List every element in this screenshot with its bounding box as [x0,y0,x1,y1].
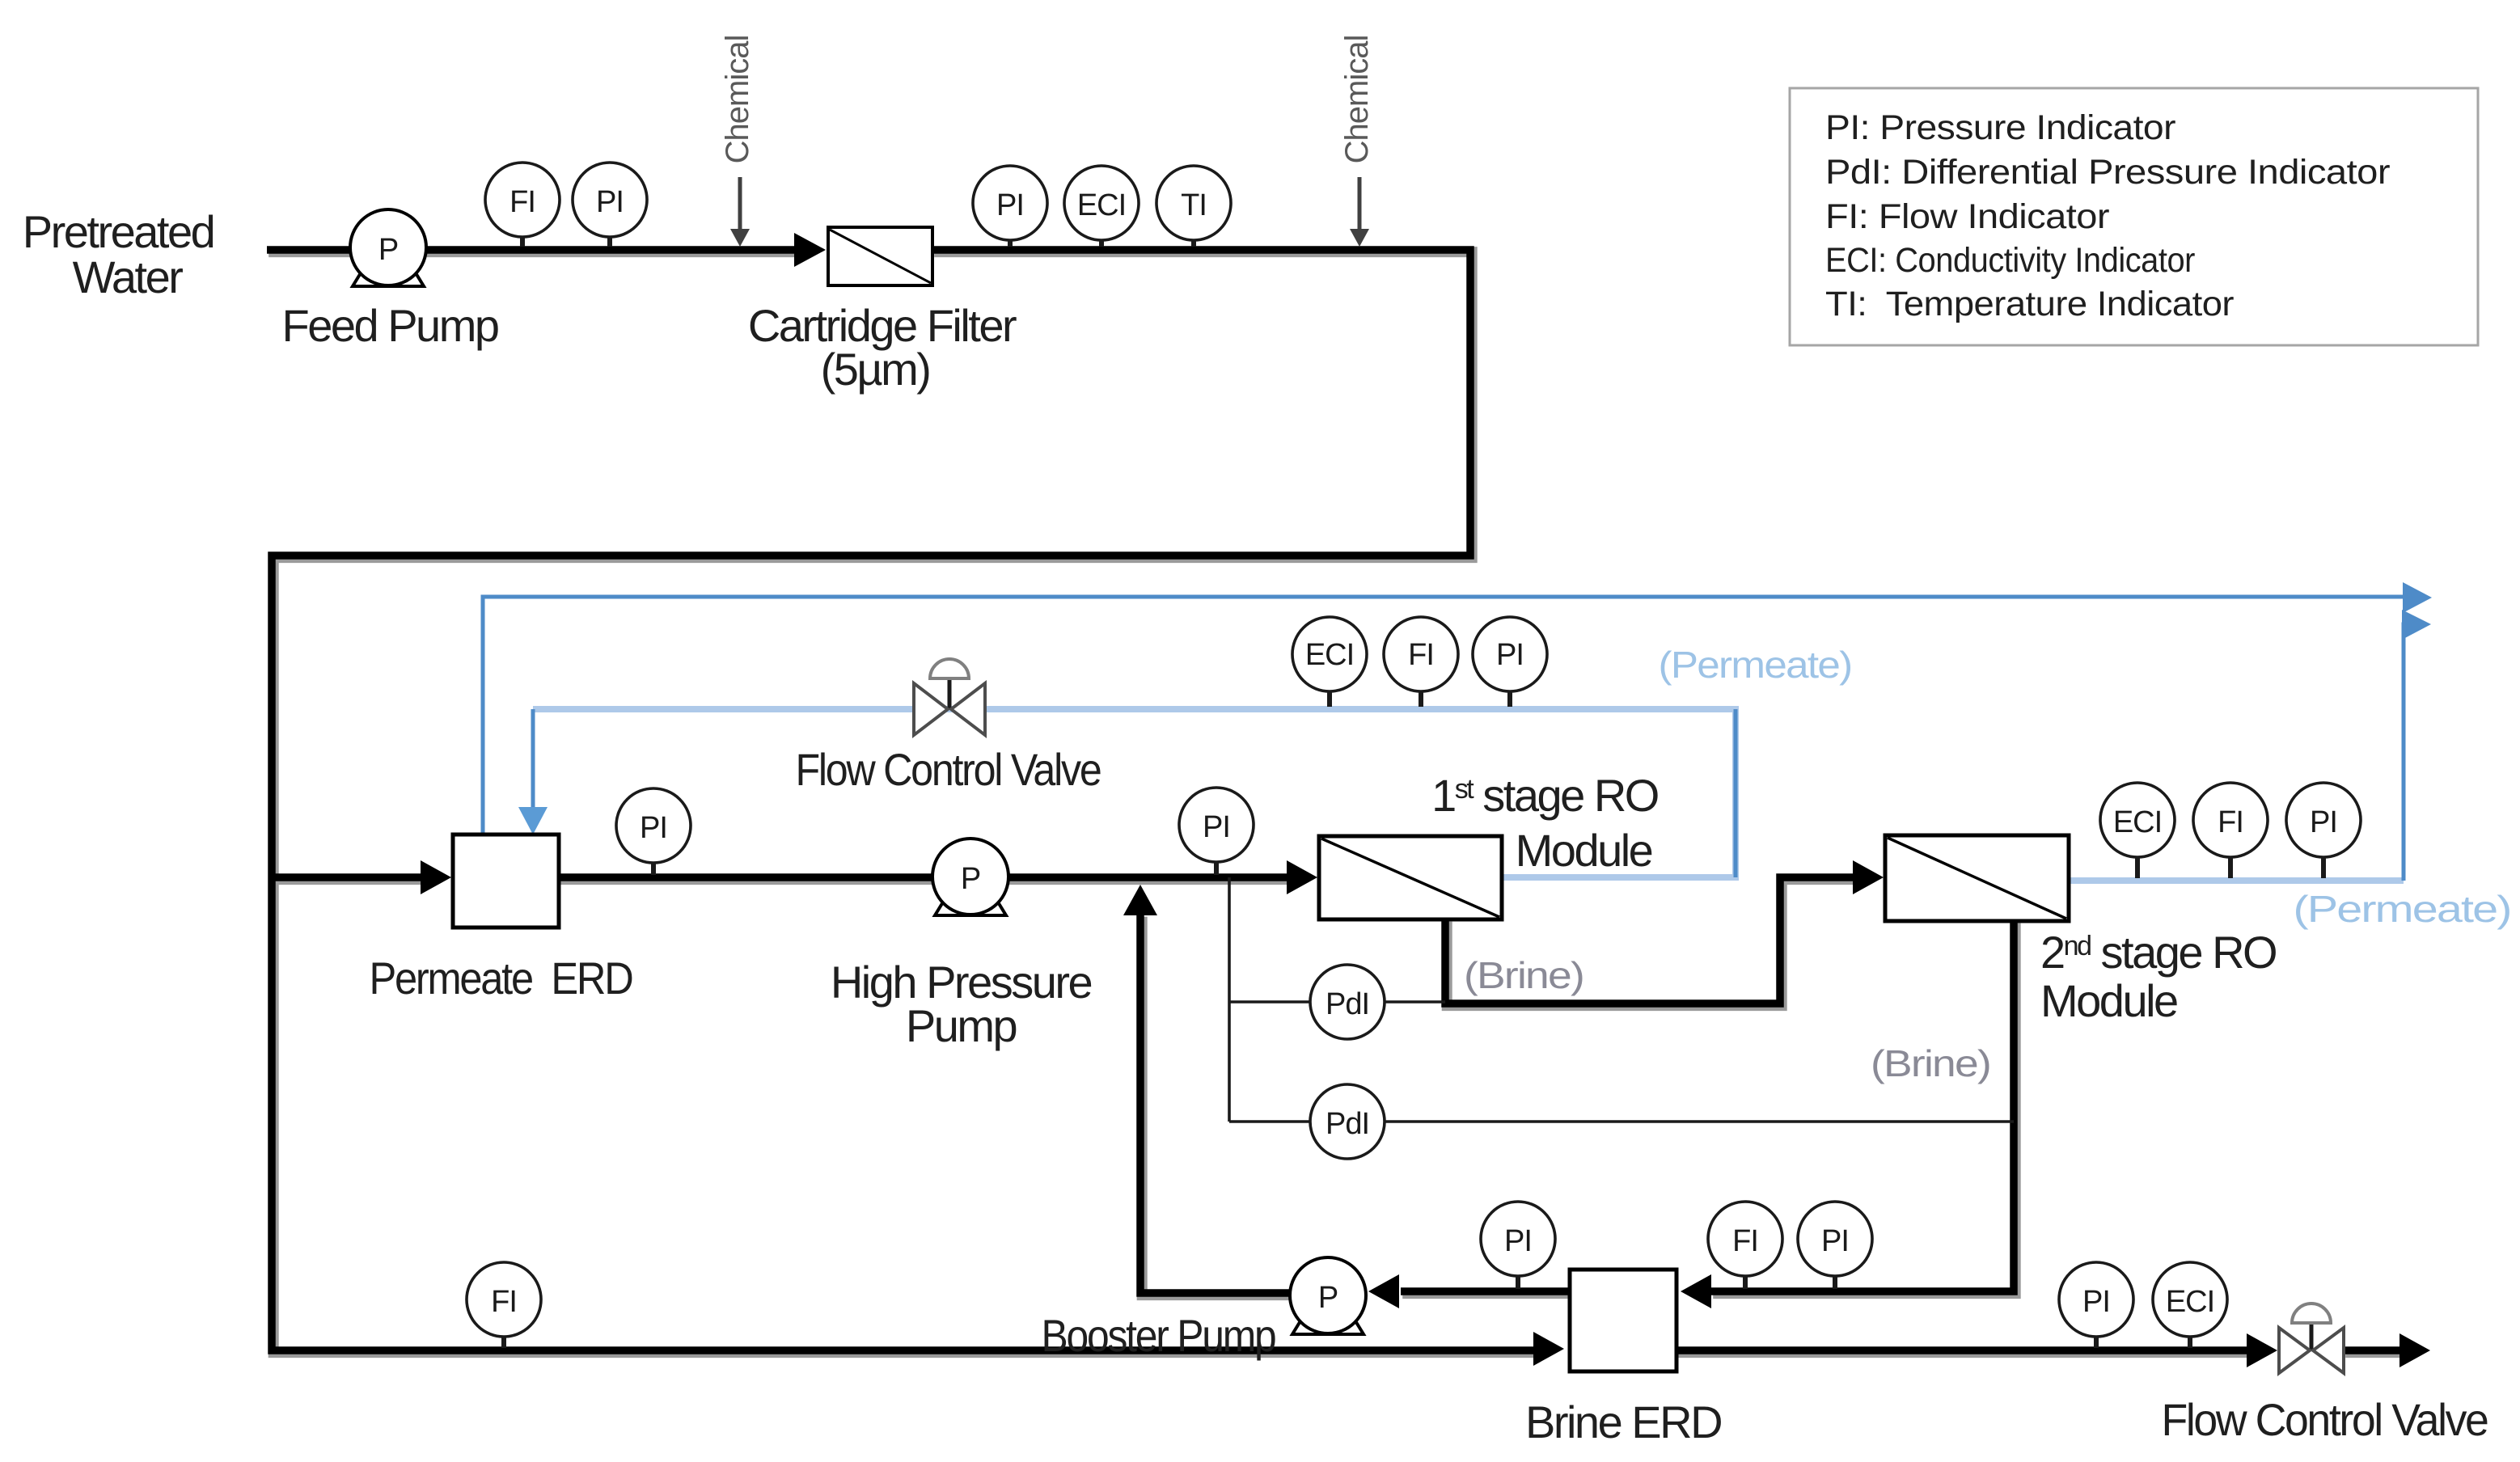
instrument bubble FI (1st permeate) [1384,617,1458,691]
instrument stubs [520,202,525,247]
svg-text:(5µm): (5µm) [821,344,930,395]
arrowhead before outlet flow control valve [2247,1333,2277,1367]
svg-text:(Permeate): (Permeate) [2294,888,2511,930]
instrument bubble PI (after filter) [973,166,1047,240]
svg-text:Feed Pump: Feed Pump [282,300,498,351]
svg-text:PI: PI [1203,810,1230,844]
1st stage RO module box [1319,836,1502,919]
instrument bubble PI (brine outlet) [2059,1262,2133,1337]
instrument bubble FI (2nd permeate) [2193,783,2268,857]
svg-text:Pretreated: Pretreated [23,206,214,257]
arrowhead into Brine ERD bottom inlet [1533,1332,1564,1366]
svg-text:ECI: ECI [2166,1285,2214,1319]
instrument bubble ECI (after filter) [1064,166,1139,240]
svg-text:(Brine): (Brine) [1871,1042,1990,1084]
booster pump P [1290,1257,1366,1333]
arrowhead into Permeate ERD [421,860,451,894]
instrument bubble PI (brine to ERD) [1798,1202,1872,1276]
svg-text:Flow Control Valve: Flow Control Valve [796,744,1101,795]
2nd stage permeate arrowhead [2402,610,2431,640]
flow control valve 2 body [2310,1323,2314,1350]
svg-text:ECI: ECI [2113,805,2162,839]
instrument bubble PI (1st permeate) [1473,617,1547,691]
svg-text:Module: Module [1516,825,1652,876]
svg-text:FI: FI [491,1285,517,1319]
svg-text:PI: PI [2310,805,2337,839]
permeate product arrowhead top right [2403,582,2432,613]
svg-text:Water: Water [73,251,184,302]
instrument bubble PdI (1st stage dP) [1310,965,1385,1039]
chemical dosing arrow 1 [738,177,742,230]
blue arrowhead into Permeate ERD [518,807,548,835]
svg-text:Module: Module [2040,975,2177,1026]
instrument bubble TI (after filter) [1156,166,1231,240]
pipe shadows [268,252,2402,1353]
svg-text:PI: PI [596,185,624,219]
feed pump P [350,209,426,285]
Permeate ERD box [453,835,559,927]
instrument bubble PI (feed) [573,163,647,237]
booster pump base [1292,1305,1364,1334]
svg-text:P: P [1318,1281,1338,1315]
svg-text:Permeate ERD: Permeate ERD [370,953,632,1004]
svg-text:Flow Control Valve: Flow Control Valve [2162,1394,2488,1445]
svg-text:FI: FI [1732,1224,1758,1258]
svg-text:PI: PI [996,188,1024,222]
svg-text:ECI: ECI [1305,638,1354,672]
svg-text:Booster Pump: Booster Pump [1042,1310,1275,1361]
svg-text:(Permeate): (Permeate) [1659,644,1852,686]
instrument bubble FI (brine to ERD) [1708,1202,1782,1276]
svg-text:Brine ERD: Brine ERD [1525,1397,1721,1447]
svg-text:FI: FI [1408,638,1434,672]
svg-text:ECI: ECI [1077,188,1126,222]
instrument bubble PI (after Permeate ERD) [616,788,691,863]
svg-text:Chemical: Chemical [1339,36,1375,164]
instrument bubble PdI (overall dP) [1310,1084,1385,1159]
svg-text:P: P [378,233,398,267]
chemical dosing arrow 2 [1358,177,1362,230]
instrument bubble ECI (2nd permeate) [2100,783,2175,857]
instrument bubble PI (booster discharge) [1481,1202,1555,1276]
arrowhead into booster pump [1368,1274,1399,1308]
instrument bubble FI (bottom feed to Brine ERD) [467,1262,541,1337]
arrowhead into Brine ERD right inlet [1681,1274,1711,1308]
2nd stage RO module box [1885,835,2069,921]
high pressure pump P [932,839,1008,915]
svg-text:PI: PI [2082,1285,2110,1319]
Brine ERD box [1570,1270,1676,1371]
svg-text:FI: Flow Indicator: FI: Flow Indicator [1825,197,2109,236]
permeate drop line into Permeate ERD [531,709,535,809]
medium blue vertical of 1st stage permeate riser [1734,709,1738,877]
instrument bubble FI (feed) [485,163,560,237]
svg-text:(Brine): (Brine) [1464,954,1583,996]
svg-text:PdI: PdI [1326,987,1369,1021]
svg-text:PdI: Differential Pressure Ind: PdI: Differential Pressure Indicator [1825,153,2390,192]
high pressure pump base [935,886,1006,915]
flow control valve 1 body [948,678,952,709]
feed pump base [353,257,424,286]
svg-text:FI: FI [509,185,535,219]
svg-text:Pump: Pump [906,1000,1017,1051]
svg-text:PdI: PdI [1326,1107,1369,1141]
2nd stage permeate line to right arrow [2069,877,2404,884]
svg-text:P: P [961,862,980,896]
arrowhead up into main line [1123,885,1157,915]
svg-text:PI: PI [1496,638,1524,672]
pipes ink [267,250,2400,1350]
PdI instrument tap lines [1229,877,2014,1122]
cartridge filter box [828,227,932,285]
svg-text:PI: Pressure Indicator: PI: Pressure Indicator [1825,108,2175,147]
arrowhead into 2nd stage RO module [1853,860,1884,894]
instrument bubble ECI (1st permeate) [1292,617,1367,691]
instrument bubble PI (before 1st RO) [1179,788,1254,862]
arrowhead into cartridge filter [794,233,826,267]
final brine discharge arrowhead [2399,1333,2430,1367]
arrowhead into 1st stage RO module [1287,860,1317,894]
svg-text:TI: TI [1181,188,1207,222]
instrument bubble ECI (brine outlet) [2153,1262,2227,1337]
permeate line from 1st stage RO module to flow control valve and Permeate ERD [533,709,1736,877]
svg-text:FI: FI [2218,805,2243,839]
permeate product line from Permeate ERD to top right arrow [483,597,2404,835]
legend box [1790,88,2478,345]
2nd stage permeate riser [2404,624,2405,881]
svg-text:TI: Temperature Indicator: TI: Temperature Indicator [1825,285,2234,323]
svg-text:PI: PI [640,811,667,845]
svg-text:Chemical: Chemical [720,36,755,164]
svg-text:ECI: Conductivity Indicator: ECI: Conductivity Indicator [1825,241,2195,280]
svg-text:PI: PI [1821,1224,1849,1258]
svg-text:PI: PI [1504,1224,1532,1258]
instrument bubble PI (2nd permeate) [2286,783,2361,857]
